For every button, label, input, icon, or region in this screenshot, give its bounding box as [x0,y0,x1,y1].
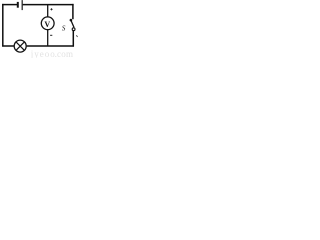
wire: top-left segment from left corner to battery [2,4,17,6]
voltmeter top lead wire with + polarity mark [47,5,49,17]
lamp L1 circle [14,40,26,52]
stray mark right edge [76,35,77,37]
wire: top segment from battery to top-right corner [23,4,74,6]
wire: right side upper segment down to switch [72,4,74,19]
switch S lower terminal circle [72,28,75,31]
svg-text:jyeoo: jyeoo [30,49,56,58]
lamp X cross [16,42,25,51]
svg-text:V: V [44,20,50,29]
voltmeter bottom lead wire with - polarity mark [47,30,49,46]
battery positive plate (long thin) [22,0,23,10]
wire: right side lower segment from switch to bottom corner [72,31,74,47]
wire: left side [2,4,4,47]
battery negative plate (short thick) [17,2,19,8]
switch S pivot dot [70,19,73,22]
wire: bottom segment left corner to lamp [2,45,14,47]
wire: bottom segment lamp to bottom-right corner [27,45,74,47]
svg-text:.com: .com [55,49,74,58]
voltmeter V1 circle [41,17,54,30]
switch S blade [71,20,74,27]
svg-text:S: S [62,24,66,32]
